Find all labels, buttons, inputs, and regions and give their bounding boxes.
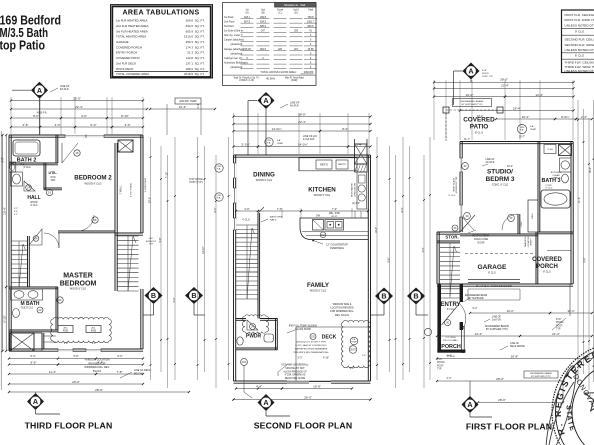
- svg-text:21'-4": 21'-4": [552, 332, 560, 336]
- svg-text:A: A: [467, 400, 472, 409]
- svg-text:269.8: 269.8: [186, 19, 194, 23]
- svg-text:M BATH: M BATH: [20, 301, 39, 307]
- svg-text:5'-1½": 5'-1½": [242, 143, 250, 147]
- svg-text:LINE OF: LINE OF: [486, 159, 496, 161]
- svg-text:SQ. FT.: SQ. FT.: [195, 67, 205, 71]
- svg-text:WOOD: WOOD: [437, 362, 445, 364]
- svg-text:SQ. FT.: SQ. FT.: [195, 19, 205, 23]
- svg-text:POST- TYP.: POST- TYP.: [482, 76, 494, 78]
- svg-text:B: B: [381, 292, 386, 301]
- svg-text:4030 WD. TEMP.: 4030 WD. TEMP.: [179, 101, 197, 103]
- svg-text:LONG.: LONG.: [532, 212, 534, 219]
- svg-text:137.1: 137.1: [186, 61, 194, 65]
- svg-text:6'-10": 6'-10": [2, 315, 6, 323]
- svg-text:9'-6": 9'-6": [388, 257, 391, 262]
- svg-text:14'-2¾": 14'-2¾": [298, 143, 308, 147]
- svg-text:COVERED: COVERED: [532, 257, 562, 263]
- svg-text:2'-2": 2'-2": [14, 214, 18, 216]
- svg-text:(C): (C): [278, 12, 281, 14]
- svg-text:8' CLG: 8' CLG: [449, 195, 456, 197]
- svg-text:BEDROOM: BEDROOM: [60, 281, 97, 288]
- svg-text:1510.0: 1510.0: [184, 35, 193, 39]
- svg-text:COVERED PORCH: COVERED PORCH: [116, 45, 142, 49]
- svg-text:PWDR: PWDR: [246, 334, 262, 340]
- svg-text:6'-0": 6'-0": [91, 123, 97, 127]
- svg-text:2300.80: 2300.80: [304, 70, 314, 74]
- svg-text:TILE: TILE: [20, 164, 25, 166]
- svg-text:40'6": 40'6": [149, 238, 154, 240]
- svg-text:BEDROOM 2: BEDROOM 2: [74, 175, 112, 182]
- svg-text:LOCATION REVISED: LOCATION REVISED: [330, 307, 353, 310]
- svg-text:DECK ABOVE: DECK ABOVE: [510, 345, 525, 348]
- svg-text:A: A: [33, 397, 38, 406]
- svg-text:BY SUPPLIER (TYP.): BY SUPPLIER (TYP.): [531, 376, 551, 378]
- svg-text:6"x6": 6"x6": [437, 359, 443, 361]
- svg-text:B: B: [191, 291, 196, 300]
- svg-text:2nd FLR DECK: 2nd FLR DECK: [116, 61, 136, 65]
- svg-text:31'-4": 31'-4": [567, 309, 574, 313]
- svg-text:21'-0": 21'-0": [578, 197, 581, 203]
- svg-text:2nd FLR.: 2nd FLR.: [492, 320, 502, 322]
- svg-text:WOOD: WOOD: [30, 202, 38, 204]
- svg-text:TOTAL HEATED AREA: TOTAL HEATED AREA: [116, 35, 146, 39]
- svg-text:8' CLG: 8' CLG: [575, 54, 585, 58]
- svg-text:PORCH: PORCH: [441, 344, 461, 350]
- svg-text:2070: 2070: [350, 348, 356, 352]
- svg-text:FOOT; SEAL W/ CONTINUOUS: FOOT; SEAL W/ CONTINUOUS: [295, 344, 327, 347]
- svg-text:TOTAL GROSS FLOOR AREA:: TOTAL GROSS FLOOR AREA:: [260, 70, 296, 74]
- svg-text:SQ. FT.: SQ. FT.: [195, 45, 205, 49]
- svg-text:3'-6": 3'-6": [14, 211, 18, 213]
- svg-text:& 3x2 FLR.: & 3x2 FLR.: [303, 138, 315, 141]
- svg-text:W/D: W/D: [51, 180, 56, 182]
- svg-text:8'-0¾": 8'-0¾": [561, 115, 569, 119]
- svg-text:10'-4": 10'-4": [506, 309, 513, 313]
- svg-text:UNLESS NOTED OTH: UNLESS NOTED OTH: [565, 48, 594, 52]
- svg-text:WOOD 9' CLG: WOOD 9' CLG: [310, 290, 327, 293]
- svg-text:ALLOW PASSAGE OF: ALLOW PASSAGE OF: [283, 370, 307, 373]
- svg-text:TEMP.: TEMP.: [277, 143, 284, 145]
- svg-text:40.36%: 40.36%: [266, 77, 275, 81]
- svg-text:AREA TABULATIONS: AREA TABULATIONS: [122, 9, 199, 16]
- svg-text:2,300.8 x 1.00: 2,300.8 x 1.00: [239, 80, 254, 82]
- svg-text:TEMP.: TEMP.: [530, 129, 537, 131]
- svg-text:3rd FLR HEATED AREA: 3rd FLR HEATED AREA: [116, 29, 148, 33]
- svg-text:WATERPROOFING MEMBRANE: WATERPROOFING MEMBRANE: [295, 348, 328, 351]
- svg-text:ENTRY: ENTRY: [440, 302, 460, 308]
- svg-text:8' CLG: 8' CLG: [543, 271, 551, 274]
- svg-text:8"x8" WOOD: 8"x8" WOOD: [189, 179, 203, 181]
- svg-text:9'-6": 9'-6": [33, 114, 39, 118]
- svg-text:REVISED FOR: REVISED FOR: [89, 362, 106, 365]
- svg-text:SQ. FT.: SQ. FT.: [195, 29, 205, 33]
- svg-text:BY SUPPLIER (TYP.): BY SUPPLIER (TYP.): [462, 104, 483, 106]
- svg-text:F.A.: F.A.: [352, 338, 356, 341]
- svg-text:WOOD 9' CLG: WOOD 9' CLG: [84, 182, 101, 186]
- svg-text:FIRST FLR. WDW. HD: FIRST FLR. WDW. HD: [565, 18, 594, 22]
- svg-text:29'-0": 29'-0": [149, 197, 152, 203]
- svg-text:3'-HGT PLATE: 3'-HGT PLATE: [130, 182, 133, 197]
- svg-text:SQ. FT.: SQ. FT.: [195, 72, 205, 76]
- svg-text:4'-10": 4'-10": [323, 357, 329, 360]
- svg-text:4'-4": 4'-4": [447, 377, 452, 380]
- svg-text:1st: 1st: [245, 9, 248, 12]
- svg-text:ENGINEERED BEAMS: ENGINEERED BEAMS: [530, 372, 552, 375]
- svg-text:20'-7": 20'-7": [519, 136, 525, 139]
- svg-text:TOTAL COVERED AREA: TOTAL COVERED AREA: [116, 72, 149, 76]
- svg-text:3'-HDR PLATE: 3'-HDR PLATE: [144, 177, 147, 192]
- svg-text:F.A.: F.A.: [277, 139, 281, 142]
- svg-text:LINE OF: LINE OF: [510, 343, 520, 345]
- svg-text:PORCH: PORCH: [536, 264, 558, 270]
- svg-text:9'-2": 9'-2": [350, 367, 355, 370]
- svg-text:REV. 5/10/21: REV. 5/10/21: [335, 314, 350, 317]
- svg-text:3rd Floor:: 3rd Floor:: [224, 25, 235, 28]
- svg-text:4'-4": 4'-4": [447, 355, 452, 358]
- svg-text:HELP CLOSING: HELP CLOSING: [473, 236, 490, 238]
- svg-text:605.9: 605.9: [186, 29, 194, 33]
- svg-text:22'-4": 22'-4": [75, 105, 83, 109]
- svg-text:A: A: [263, 398, 268, 407]
- svg-text:4'-0": 4'-0": [55, 123, 61, 127]
- svg-text:DECK: DECK: [322, 335, 337, 341]
- svg-text:2'-4": 2'-4": [356, 143, 362, 147]
- svg-text:HALL: HALL: [27, 195, 40, 201]
- svg-text:20'-0": 20'-0": [72, 380, 80, 384]
- svg-text:3'-0": 3'-0": [173, 297, 176, 302]
- svg-text:112.8: 112.8: [186, 56, 193, 60]
- svg-text:TYP.: TYP.: [437, 369, 442, 371]
- svg-text:10'-0": 10'-0": [466, 93, 474, 97]
- svg-text:5'-2": 5'-2": [14, 208, 18, 210]
- svg-text:SQ. FT.: SQ. FT.: [195, 56, 205, 60]
- svg-text:SOLATRUFT OR: SOLATRUFT OR: [455, 176, 458, 193]
- svg-text:LINE OF: LINE OF: [492, 317, 502, 319]
- svg-text:3'-0": 3'-0": [422, 247, 425, 252]
- svg-text:TEMP: TEMP: [351, 342, 357, 344]
- svg-text:BEDRM 3: BEDRM 3: [486, 176, 515, 183]
- svg-text:BY SUPPLIER (TYP.): BY SUPPLIER (TYP.): [486, 329, 508, 331]
- svg-text:5'-0": 5'-0": [2, 157, 5, 162]
- svg-text:4" DIA. SPHERE AS: 4" DIA. SPHERE AS: [285, 374, 306, 377]
- svg-text:9'-2": 9'-2": [473, 307, 478, 310]
- svg-text:BUTCHER: BUTCHER: [551, 172, 562, 174]
- svg-text:22'-4": 22'-4": [501, 84, 509, 88]
- svg-text:A: A: [263, 96, 268, 105]
- svg-text:6"x6": 6"x6": [556, 319, 562, 321]
- svg-text:4th FLR.: 4th FLR.: [60, 88, 70, 91]
- svg-text:18'-4": 18'-4": [513, 107, 521, 111]
- svg-text:28'-0": 28'-0": [496, 377, 504, 381]
- svg-text:CONC. 8' CLG: CONC. 8' CLG: [492, 184, 509, 187]
- svg-text:8' x 7' O.H. GARAGE DOOR: 8' x 7' O.H. GARAGE DOOR: [476, 284, 512, 288]
- svg-text:5'-0": 5'-0": [117, 354, 122, 358]
- svg-text:SECOND FLR. CEILIN: SECOND FLR. CEILIN: [565, 37, 594, 41]
- svg-text:ENGINEERED BEAM: ENGINEERED BEAM: [465, 294, 487, 297]
- svg-text:UPRACK: UPRACK: [551, 177, 561, 180]
- svg-text:8"x8": 8"x8": [482, 70, 487, 72]
- svg-text:F.A.: F.A.: [267, 141, 271, 144]
- svg-text:DOOR: DOOR: [478, 242, 485, 244]
- svg-text:B: B: [413, 292, 418, 301]
- svg-text:A.B.: A.B.: [64, 327, 68, 330]
- svg-text:THIRD FLOOR PLAN: THIRD FLOOR PLAN: [25, 421, 113, 431]
- svg-text:GARAGE: GARAGE: [478, 264, 508, 271]
- svg-text:VERIFY: VERIFY: [531, 238, 533, 246]
- svg-text:2'-0" HIGH: 2'-0" HIGH: [446, 337, 456, 339]
- svg-text:9' CLG: 9' CLG: [575, 30, 585, 34]
- svg-text:7'-0": 7'-0": [332, 207, 337, 211]
- svg-text:12'-4": 12'-4": [535, 93, 543, 97]
- svg-text:Total Gr. Floor/Lot Sq. Ft.:: Total Gr. Floor/Lot Sq. Ft.:: [233, 76, 260, 79]
- svg-text:SOLID CORE: SOLID CORE: [474, 239, 489, 241]
- svg-text:REF'G: REF'G: [320, 163, 328, 167]
- svg-text:PANTRY: PANTRY: [338, 163, 347, 166]
- svg-text:4th FLR.: 4th FLR.: [290, 105, 300, 108]
- svg-text:STUDIO/: STUDIO/: [487, 169, 513, 176]
- svg-text:F.A.: F.A.: [217, 167, 221, 170]
- svg-text:11'-4": 11'-4": [49, 370, 56, 374]
- svg-text:(DECK)(2) TO SLOPE 2" PER: (DECK)(2) TO SLOPE 2" PER: [296, 342, 326, 344]
- svg-text:F.A.: F.A.: [520, 129, 524, 132]
- svg-text:STUCCO WALL: STUCCO WALL: [443, 339, 459, 342]
- svg-text:OVEN BELOW: OVEN BELOW: [354, 183, 356, 197]
- svg-text:9'-6": 9'-6": [159, 237, 162, 242]
- svg-text:4030: 4030: [63, 330, 69, 332]
- svg-text:TYP.: TYP.: [556, 329, 561, 331]
- svg-text:5'-8": 5'-8": [73, 354, 78, 358]
- svg-text:THIRD FLR. CEILING: THIRD FLR. CEILING: [565, 60, 594, 64]
- svg-text:4'-0": 4'-0": [81, 114, 87, 118]
- svg-text:Total: Total: [308, 9, 313, 12]
- svg-text:26'-8": 26'-8": [511, 355, 519, 359]
- svg-text:41'-7": 41'-7": [464, 138, 470, 141]
- svg-text:WINDOW SIZE &: WINDOW SIZE &: [333, 303, 352, 306]
- svg-text:4' CLG: 4' CLG: [242, 219, 250, 222]
- svg-text:35'-0": 35'-0": [589, 167, 592, 173]
- svg-text:28'-0": 28'-0": [500, 78, 508, 82]
- svg-text:A.B.: A.B.: [92, 327, 96, 330]
- svg-text:TOP: TOP: [149, 244, 154, 246]
- svg-text:2nd Floor:: 2nd Floor:: [224, 20, 235, 23]
- svg-text:2'-0": 2'-0": [197, 103, 200, 108]
- svg-text:Incl'd: Incl'd: [293, 10, 299, 12]
- svg-text:8'-1": 8'-1": [214, 207, 217, 212]
- svg-text:3'-6": 3'-6": [244, 207, 249, 211]
- svg-text:634.5: 634.5: [186, 24, 194, 28]
- svg-text:MASTER: MASTER: [63, 273, 93, 280]
- svg-text:PATIO: PATIO: [470, 124, 489, 131]
- svg-text:SPACING TO NOT: SPACING TO NOT: [285, 367, 305, 370]
- svg-text:8' CLG: 8' CLG: [475, 131, 483, 135]
- svg-text:9'-6": 9'-6": [31, 361, 37, 365]
- svg-text:WOOD 9' CLG: WOOD 9' CLG: [70, 288, 87, 291]
- svg-text:10'-4": 10'-4": [179, 105, 187, 109]
- svg-text:STOR.: STOR.: [445, 235, 458, 240]
- svg-text:A: A: [468, 67, 473, 76]
- svg-text:BATH 2: BATH 2: [17, 158, 37, 164]
- svg-text:SQ. FT.: SQ. FT.: [195, 61, 205, 65]
- svg-text:OG: OG: [311, 335, 315, 339]
- svg-text:WOOD 9' CLG: WOOD 9' CLG: [256, 179, 273, 182]
- svg-text:2'-4": 2'-4": [362, 355, 367, 357]
- svg-text:GLASS DOOR: GLASS DOOR: [295, 328, 311, 331]
- svg-text:4'-6": 4'-6": [92, 343, 97, 345]
- svg-text:FIRST FLR. CEILING H: FIRST FLR. CEILING H: [565, 13, 594, 17]
- svg-text:SQ. FT.: SQ. FT.: [195, 51, 205, 55]
- svg-text:Max Fl. Area Ratio: Max Fl. Area Ratio: [285, 76, 305, 79]
- svg-text:(D): (D): [294, 12, 297, 14]
- svg-text:IOG: IOG: [242, 360, 247, 364]
- svg-text:7'-10": 7'-10": [165, 172, 168, 178]
- svg-text:BURNOUT: BURNOUT: [146, 241, 157, 243]
- svg-text:ENTRY PORCH: ENTRY PORCH: [116, 51, 137, 55]
- svg-text:5/10/21: 5/10/21: [93, 370, 102, 373]
- svg-text:26'-0": 26'-0": [298, 113, 306, 117]
- svg-text:1st FLR HEATED AREA: 1st FLR HEATED AREA: [116, 19, 147, 23]
- svg-text:5' SH: 5' SH: [547, 149, 553, 151]
- svg-text:8' CLG: 8' CLG: [488, 272, 496, 275]
- svg-text:2nd FLR HEATED AREA: 2nd FLR HEATED AREA: [116, 24, 148, 28]
- svg-text:SQ. FT.: SQ. FT.: [195, 24, 205, 28]
- svg-text:188.0: 188.0: [186, 67, 194, 71]
- svg-text:1st Floor:: 1st Floor:: [224, 16, 234, 19]
- svg-text:BATH OPEN: BATH OPEN: [270, 216, 283, 219]
- svg-text:POST (TYP.): POST (TYP.): [189, 182, 202, 184]
- svg-text:POST-: POST-: [437, 365, 444, 367]
- svg-text:MICRO ABOVE: MICRO ABOVE: [351, 182, 354, 197]
- svg-text:top Patio: top Patio: [0, 38, 45, 53]
- svg-text:PVD: PVD: [51, 177, 56, 179]
- svg-text:BELOW: BELOW: [134, 372, 143, 375]
- svg-text:UNLESS NOTED OT: UNLESS NOTED OT: [565, 69, 594, 73]
- svg-text:(B): (B): [261, 12, 264, 14]
- svg-text:F.A.: F.A.: [530, 125, 534, 128]
- svg-text:REQ'D PER GUIDE: REQ'D PER GUIDE: [285, 378, 306, 380]
- svg-text:10'-4": 10'-4": [507, 165, 513, 168]
- svg-text:28'-0": 28'-0": [95, 388, 103, 392]
- svg-text:SQ. FT.: SQ. FT.: [195, 35, 205, 39]
- svg-text:26'-0": 26'-0": [304, 395, 312, 399]
- svg-text:FAMILY: FAMILY: [307, 282, 330, 289]
- svg-text:Gross: Gross: [277, 9, 284, 12]
- svg-text:BY SUPPLIER: BY SUPPLIER: [468, 298, 483, 300]
- svg-text:(2) 4'-0": (2) 4'-0": [352, 203, 360, 205]
- svg-text:WOOD 9' CLG: WOOD 9' CLG: [314, 194, 331, 197]
- svg-text:9' CLG: 9' CLG: [23, 167, 30, 169]
- svg-text:RAILS: RAILS: [270, 218, 277, 221]
- svg-text:9' CLG: 9' CLG: [30, 205, 37, 207]
- svg-text:A: A: [37, 86, 42, 95]
- svg-text:2'-4": 2'-4": [581, 115, 587, 119]
- svg-text:ROOF DECK: ROOF DECK: [116, 67, 134, 71]
- svg-text:COVERED PATIO: COVERED PATIO: [116, 56, 140, 60]
- svg-text:8'-4": 8'-4": [342, 127, 348, 131]
- svg-text:SECOND FLOOR PLAN: SECOND FLOOR PLAN: [254, 421, 353, 431]
- svg-text:LOCATION: LOCATION: [527, 236, 530, 247]
- svg-text:5'-4": 5'-4": [30, 354, 35, 358]
- svg-text:9'-6": 9'-6": [584, 257, 587, 262]
- svg-text:F.A.: F.A.: [217, 196, 221, 199]
- svg-text:UTIL.: UTIL.: [49, 171, 58, 175]
- svg-text:Ceilings over 10':: Ceilings over 10':: [224, 57, 243, 60]
- svg-text:PER MFR'S RECOMMENDATIONS: PER MFR'S RECOMMENDATIONS: [294, 351, 329, 354]
- svg-text:7'-0": 7'-0": [277, 207, 282, 211]
- svg-text:22'-4": 22'-4": [298, 120, 306, 124]
- svg-text:*WINDOW LOCATION: *WINDOW LOCATION: [84, 359, 109, 362]
- svg-text:TEMP. GLASS: TEMP. GLASS: [452, 177, 455, 192]
- svg-text:8'-10": 8'-10": [121, 114, 129, 118]
- svg-text:GARAGE: GARAGE: [116, 40, 129, 44]
- svg-text:28'-0": 28'-0": [498, 398, 506, 402]
- svg-text:(FAR):: (FAR):: [291, 79, 298, 82]
- svg-text:2018.5: 2018.5: [184, 72, 193, 76]
- svg-text:WOOD: WOOD: [482, 73, 489, 75]
- svg-text:DBL. SINK: DBL. SINK: [329, 213, 341, 215]
- svg-text:16'-4": 16'-4": [2, 207, 6, 215]
- svg-text:COVERED: COVERED: [463, 117, 495, 124]
- svg-text:2nd FLR: 2nd FLR: [486, 162, 495, 164]
- svg-text:4'-4": 4'-4": [256, 385, 262, 389]
- svg-text:174.3: 174.3: [186, 45, 194, 49]
- svg-text:KITCHEN: KITCHEN: [308, 187, 336, 194]
- svg-text:TILE 9' CLG: TILE 9' CLG: [21, 308, 34, 310]
- svg-text:4'-6": 4'-6": [64, 343, 69, 345]
- svg-text:SQ. FT.: SQ. FT.: [195, 40, 205, 44]
- svg-text:(A): (A): [245, 11, 248, 14]
- svg-text:AT 42": AT 42": [331, 215, 337, 218]
- svg-text:8'-0": 8'-0": [401, 207, 404, 212]
- svg-text:14'-0¾": 14'-0¾": [272, 127, 282, 131]
- svg-text:3'-0": 3'-0": [125, 123, 131, 127]
- svg-text:19'-4": 19'-4": [375, 227, 378, 233]
- svg-text:11'-10": 11'-10": [202, 246, 205, 254]
- svg-text:250.3: 250.3: [186, 40, 194, 44]
- svg-text:FOR WINDBRACING-: FOR WINDBRACING-: [330, 310, 354, 313]
- svg-text:16'-8": 16'-8": [313, 385, 321, 389]
- svg-text:7' WALL: 7' WALL: [120, 185, 123, 195]
- svg-text:CLEAN: CLEAN: [552, 174, 560, 177]
- svg-text:CONC.: CONC.: [521, 220, 523, 227]
- svg-text:21.3: 21.3: [187, 51, 193, 55]
- svg-text:Tabulation E - Wall: Tabulation E - Wall: [284, 3, 306, 7]
- svg-text:2'-8": 2'-8": [23, 123, 29, 127]
- svg-text:WINDBRACING- REV.: WINDBRACING- REV.: [84, 366, 109, 369]
- svg-text:ENGINEERED BEAMS: ENGINEERED BEAMS: [485, 325, 509, 328]
- svg-text:12'-4": 12'-4": [475, 332, 483, 336]
- svg-text:5'-0": 5'-0": [298, 357, 303, 360]
- svg-text:FIRST FLOOR PLAN: FIRST FLOOR PLAN: [466, 422, 552, 432]
- svg-text:TANKLESS: TANKLESS: [524, 236, 527, 247]
- svg-text:B: B: [151, 291, 156, 300]
- svg-text:4030: 4030: [91, 330, 97, 332]
- svg-text:OVERHANG: OVERHANG: [330, 247, 344, 250]
- svg-text:7'-8": 7'-8": [117, 370, 123, 374]
- svg-text:DINING: DINING: [253, 172, 275, 179]
- svg-text:DZ: DZ: [321, 233, 325, 237]
- svg-text:SECOND FLR. WDW.: SECOND FLR. WDW.: [565, 43, 594, 47]
- svg-text:ENGINEERED BEAMS: ENGINEERED BEAMS: [461, 100, 484, 103]
- svg-text:8' CLG: 8' CLG: [546, 188, 553, 190]
- svg-text:16'-2": 16'-2": [522, 115, 530, 119]
- svg-text:4030 F.A.: 4030 F.A.: [37, 112, 48, 115]
- svg-text:UNLESS NOTED OTH: UNLESS NOTED OTH: [565, 24, 594, 28]
- svg-text:22'-0": 22'-0": [73, 97, 81, 101]
